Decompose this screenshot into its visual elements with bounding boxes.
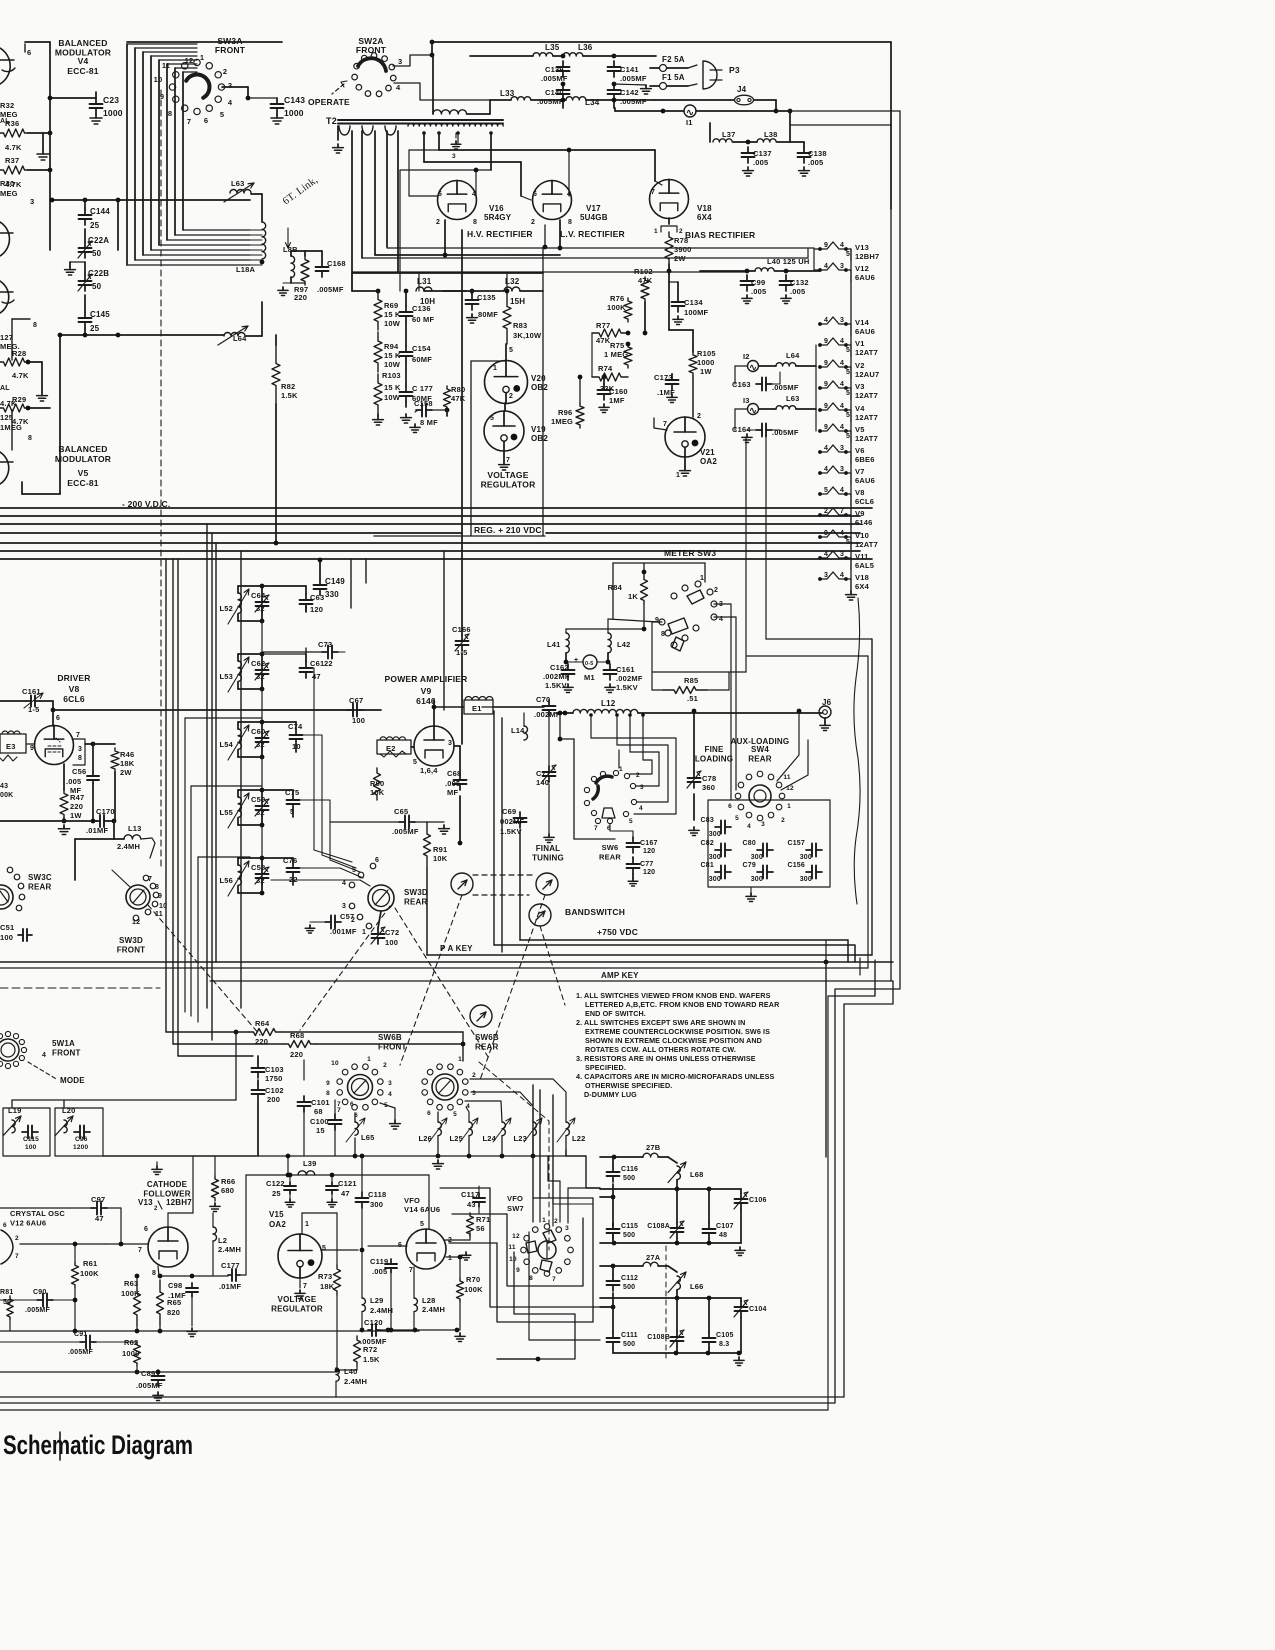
- svg-text:R37: R37: [5, 156, 19, 165]
- svg-text:60 MF: 60 MF: [412, 315, 434, 324]
- svg-text:9: 9: [824, 381, 828, 388]
- svg-text:5: 5: [490, 415, 494, 422]
- svg-text:2: 2: [472, 1072, 476, 1079]
- svg-text:2: 2: [679, 228, 683, 235]
- svg-text:6AU6: 6AU6: [855, 476, 875, 485]
- svg-text:10: 10: [154, 75, 163, 84]
- svg-text:4.7K: 4.7K: [12, 371, 29, 380]
- svg-text:140: 140: [536, 778, 549, 787]
- svg-text:I1: I1: [686, 118, 693, 127]
- svg-text:8: 8: [152, 1270, 156, 1277]
- svg-text:10W: 10W: [384, 393, 401, 402]
- svg-text:AMP KEY: AMP KEY: [601, 971, 639, 980]
- svg-text:.002MF: .002MF: [534, 710, 561, 719]
- svg-text:300: 300: [800, 854, 812, 861]
- svg-text:5: 5: [735, 815, 739, 822]
- svg-text:V5: V5: [78, 468, 89, 478]
- svg-text:.005MF: .005MF: [136, 1381, 163, 1390]
- svg-text:1: 1: [362, 929, 366, 936]
- svg-text:68: 68: [314, 1107, 323, 1116]
- svg-text:4: 4: [396, 83, 401, 92]
- svg-text:6X4: 6X4: [855, 582, 870, 591]
- svg-text:4: 4: [840, 487, 844, 494]
- svg-text:3: 3: [840, 263, 844, 270]
- svg-text:12BH7: 12BH7: [855, 252, 879, 261]
- svg-text:32: 32: [256, 672, 265, 681]
- svg-text:32: 32: [256, 740, 265, 749]
- svg-text:8: 8: [155, 884, 159, 891]
- svg-text:3: 3: [761, 821, 765, 828]
- svg-text:6AL5: 6AL5: [855, 561, 874, 570]
- svg-text:2: 2: [509, 393, 513, 400]
- svg-text:C121: C121: [338, 1179, 357, 1188]
- svg-text:V12 6AU6: V12 6AU6: [10, 1219, 46, 1228]
- svg-text:100: 100: [0, 933, 13, 942]
- svg-text:BANDSWITCH: BANDSWITCH: [565, 907, 625, 917]
- svg-text:18K: 18K: [120, 759, 135, 768]
- svg-text:5: 5: [846, 369, 850, 376]
- svg-text:C136: C136: [412, 304, 431, 313]
- svg-text:3900: 3900: [674, 245, 692, 254]
- svg-text:I2: I2: [743, 352, 750, 361]
- svg-text:3. RESISTORS ARE IN OHMS UNLES: 3. RESISTORS ARE IN OHMS UNLESS OTHERWIS…: [576, 1054, 756, 1063]
- svg-text:AL: AL: [0, 385, 10, 392]
- svg-text:END OF SWITCH.: END OF SWITCH.: [585, 1009, 646, 1018]
- svg-text:25: 25: [272, 1189, 281, 1198]
- svg-text:C132: C132: [790, 278, 809, 287]
- svg-text:5: 5: [322, 1245, 326, 1252]
- svg-text:7: 7: [303, 1283, 307, 1290]
- svg-text:6CL6: 6CL6: [63, 694, 85, 704]
- svg-text:4: 4: [840, 424, 844, 431]
- svg-text:7: 7: [840, 508, 844, 515]
- svg-text:SW7: SW7: [507, 1204, 524, 1213]
- svg-text:V15: V15: [269, 1210, 284, 1219]
- svg-text:C105: C105: [716, 1332, 734, 1339]
- svg-text:C106: C106: [749, 1197, 767, 1204]
- svg-text:15 K: 15 K: [384, 310, 401, 319]
- svg-text:C156: C156: [787, 862, 805, 869]
- svg-text:R80: R80: [451, 385, 465, 394]
- svg-text:4: 4: [42, 1052, 46, 1059]
- svg-text:FRONT: FRONT: [215, 45, 246, 55]
- svg-text:47: 47: [95, 1214, 104, 1223]
- svg-text:METER SW3: METER SW3: [664, 548, 716, 558]
- svg-text:1.5KV: 1.5KV: [616, 683, 638, 692]
- svg-text:C167: C167: [640, 840, 658, 847]
- svg-text:12AT7: 12AT7: [855, 540, 878, 549]
- svg-text:LOADING: LOADING: [695, 755, 733, 764]
- svg-text:BALANCED: BALANCED: [58, 38, 107, 48]
- svg-text:12BH7: 12BH7: [166, 1198, 192, 1207]
- svg-text:2.4MH: 2.4MH: [218, 1245, 241, 1254]
- svg-text:C79: C79: [743, 862, 756, 869]
- svg-text:10K: 10K: [370, 788, 385, 797]
- svg-text:5: 5: [824, 487, 828, 494]
- svg-text:5: 5: [846, 251, 850, 258]
- svg-text:C80: C80: [743, 840, 756, 847]
- svg-text:REGULATOR: REGULATOR: [271, 1305, 323, 1314]
- svg-text:15 K: 15 K: [384, 351, 401, 360]
- svg-text:300: 300: [370, 1200, 383, 1209]
- svg-text:C99: C99: [751, 278, 765, 287]
- svg-text:8: 8: [168, 109, 172, 118]
- svg-text:4: 4: [840, 360, 844, 367]
- svg-text:MEG.: MEG.: [0, 342, 20, 351]
- svg-text:120: 120: [310, 605, 323, 614]
- svg-text:1750: 1750: [265, 1074, 283, 1083]
- svg-text:I3: I3: [743, 396, 750, 405]
- svg-text:4: 4: [840, 572, 844, 579]
- svg-text:M1: M1: [584, 673, 595, 682]
- svg-text:L38: L38: [764, 130, 778, 139]
- svg-text:R76: R76: [610, 294, 624, 303]
- svg-text:OTHERWISE SPECIFIED.: OTHERWISE SPECIFIED.: [585, 1081, 672, 1090]
- svg-text:4: 4: [824, 317, 828, 324]
- svg-text:1.5KV: 1.5KV: [500, 827, 522, 836]
- svg-text:4: 4: [824, 466, 828, 473]
- svg-text:R65: R65: [167, 1298, 181, 1307]
- svg-text:1K: 1K: [628, 592, 638, 601]
- svg-text:R62: R62: [124, 1338, 138, 1347]
- svg-text:820: 820: [167, 1308, 180, 1317]
- svg-text:10K: 10K: [433, 854, 448, 863]
- svg-text:8: 8: [78, 755, 82, 762]
- svg-text:L24: L24: [482, 1134, 496, 1143]
- svg-text:L.V. RECTIFIER: L.V. RECTIFIER: [560, 229, 625, 239]
- svg-text:L22: L22: [572, 1134, 586, 1143]
- svg-text:8: 8: [28, 435, 32, 442]
- svg-text:9: 9: [655, 617, 659, 624]
- svg-text:5: 5: [453, 1111, 457, 1118]
- svg-text:C96: C96: [75, 1136, 88, 1143]
- svg-text:V13: V13: [138, 1198, 153, 1207]
- svg-text:C78: C78: [702, 774, 716, 783]
- svg-text:C108B: C108B: [647, 1334, 670, 1341]
- svg-text:SW6B: SW6B: [378, 1033, 402, 1042]
- svg-text:8: 8: [568, 219, 572, 226]
- svg-text:680: 680: [221, 1186, 234, 1195]
- svg-text:C161: C161: [616, 665, 635, 674]
- svg-text:12: 12: [512, 1233, 520, 1240]
- svg-text:V7: V7: [855, 467, 865, 476]
- svg-text:4: 4: [639, 805, 643, 812]
- svg-text:15 K: 15 K: [384, 383, 401, 392]
- svg-text:6146: 6146: [855, 518, 873, 527]
- svg-text:7: 7: [15, 1253, 19, 1260]
- svg-text:5: 5: [846, 347, 850, 354]
- svg-text:60MF: 60MF: [412, 355, 432, 364]
- svg-text:R85: R85: [684, 676, 698, 685]
- svg-text:7: 7: [337, 1101, 341, 1108]
- svg-text:V1: V1: [855, 339, 865, 348]
- svg-text:BIAS RECTIFIER: BIAS RECTIFIER: [685, 230, 755, 240]
- svg-text:11: 11: [162, 61, 170, 70]
- svg-text:FRONT: FRONT: [52, 1049, 81, 1058]
- svg-text:27A: 27A: [646, 1253, 661, 1262]
- svg-text:1: 1: [700, 575, 704, 582]
- svg-text:9: 9: [824, 360, 828, 367]
- svg-text:OA2: OA2: [269, 1220, 286, 1229]
- svg-text:C111: C111: [621, 1332, 638, 1339]
- svg-text:1: 1: [200, 53, 204, 62]
- svg-text:L63: L63: [231, 179, 245, 188]
- svg-text:C115: C115: [23, 1136, 39, 1143]
- svg-text:R70: R70: [466, 1275, 480, 1284]
- svg-text:12AT7: 12AT7: [855, 434, 878, 443]
- svg-text:4. CAPACITORS ARE IN MICRO-MIC: 4. CAPACITORS ARE IN MICRO-MICROFARADS U…: [576, 1072, 775, 1081]
- svg-text:L33: L33: [500, 89, 515, 98]
- svg-text:C61: C61: [310, 659, 324, 668]
- svg-text:REAR: REAR: [28, 883, 51, 892]
- svg-text:.002MF: .002MF: [616, 674, 643, 683]
- svg-text:2.4MH: 2.4MH: [422, 1305, 445, 1314]
- svg-text:.005MF: .005MF: [620, 74, 647, 83]
- svg-text:C168: C168: [327, 259, 346, 268]
- svg-text:R72: R72: [363, 1345, 377, 1354]
- svg-text:C154: C154: [412, 344, 431, 353]
- svg-text:C112: C112: [621, 1275, 638, 1282]
- svg-text:3: 3: [228, 81, 232, 90]
- svg-text:C70: C70: [536, 695, 550, 704]
- svg-text:V19: V19: [531, 425, 546, 434]
- svg-text:C134: C134: [684, 298, 703, 307]
- svg-text:REAR: REAR: [599, 853, 621, 862]
- svg-text:330: 330: [325, 590, 339, 599]
- svg-text:220: 220: [290, 1050, 303, 1059]
- svg-text:7: 7: [651, 189, 655, 196]
- svg-text:R46: R46: [120, 750, 134, 759]
- svg-text:50: 50: [92, 282, 102, 291]
- svg-text:C162: C162: [550, 663, 569, 672]
- svg-text:.005MF: .005MF: [772, 428, 799, 437]
- svg-text:32: 32: [256, 808, 265, 817]
- svg-text:300: 300: [709, 854, 721, 861]
- svg-text:2: 2: [697, 413, 701, 420]
- svg-text:1: 1: [619, 766, 623, 773]
- svg-text:L39: L39: [303, 1159, 317, 1168]
- svg-text:9: 9: [516, 1267, 520, 1274]
- svg-text:5R4GY: 5R4GY: [484, 213, 512, 222]
- svg-text:00K: 00K: [0, 792, 13, 799]
- svg-text:C71: C71: [536, 769, 550, 778]
- svg-text:C166: C166: [452, 625, 471, 634]
- svg-text:360: 360: [702, 783, 715, 792]
- svg-text:C81: C81: [701, 862, 714, 869]
- svg-text:MEG: MEG: [0, 189, 18, 198]
- svg-text:1 MEG: 1 MEG: [604, 350, 628, 359]
- svg-text:50: 50: [92, 249, 102, 258]
- svg-text:C139: C139: [545, 65, 564, 74]
- svg-text:C135: C135: [477, 293, 496, 302]
- svg-text:MODULATOR: MODULATOR: [55, 454, 111, 464]
- svg-text:V2: V2: [855, 361, 865, 370]
- svg-text:V18: V18: [697, 204, 712, 213]
- svg-text:V21: V21: [700, 448, 715, 457]
- svg-text:.005: .005: [66, 777, 81, 786]
- svg-text:1200: 1200: [73, 1144, 88, 1151]
- svg-text:2. ALL SWITCHES EXCEPT SW6 ARE: 2. ALL SWITCHES EXCEPT SW6 ARE SHOWN IN: [576, 1018, 745, 1027]
- svg-text:L25: L25: [449, 1134, 463, 1143]
- svg-text:L55: L55: [219, 808, 233, 817]
- svg-text:POWER AMPLIFIER: POWER AMPLIFIER: [385, 674, 468, 684]
- svg-text:6: 6: [350, 1101, 354, 1108]
- svg-text:C173: C173: [654, 373, 673, 382]
- svg-text:CATHODE: CATHODE: [147, 1180, 188, 1189]
- svg-text:9: 9: [824, 424, 828, 431]
- svg-text:C97: C97: [91, 1195, 105, 1204]
- svg-text:56: 56: [476, 1224, 485, 1233]
- svg-text:5: 5: [420, 1221, 424, 1228]
- svg-text:1: 1: [676, 472, 680, 479]
- svg-text:4: 4: [824, 263, 828, 270]
- svg-text:C144: C144: [90, 207, 110, 216]
- svg-text:C 177: C 177: [412, 384, 433, 393]
- svg-text:15H: 15H: [510, 297, 525, 306]
- svg-text:1MEG: 1MEG: [551, 417, 573, 426]
- svg-text:7: 7: [594, 825, 598, 832]
- svg-text:6BE6: 6BE6: [855, 455, 875, 464]
- svg-text:SHOWN IN EXTREME CLOCKWISE POS: SHOWN IN EXTREME CLOCKWISE POSITION AND: [585, 1036, 762, 1045]
- svg-text:SW4: SW4: [751, 745, 769, 754]
- svg-text:100: 100: [352, 716, 365, 725]
- svg-text:L65: L65: [361, 1133, 375, 1142]
- svg-text:REAR: REAR: [404, 898, 427, 907]
- svg-text:15: 15: [316, 1126, 325, 1135]
- svg-text:SW6B: SW6B: [475, 1033, 499, 1042]
- svg-text:R73: R73: [318, 1272, 332, 1281]
- svg-text:R96: R96: [558, 408, 572, 417]
- svg-text:10: 10: [331, 1060, 339, 1067]
- svg-text:DRIVER: DRIVER: [57, 673, 90, 683]
- svg-text:.005MF: .005MF: [541, 74, 568, 83]
- svg-text:32: 32: [256, 604, 265, 613]
- svg-text:25: 25: [90, 324, 100, 333]
- svg-text:C170: C170: [96, 807, 115, 816]
- svg-text:V8: V8: [69, 684, 80, 694]
- svg-text:6: 6: [427, 1110, 431, 1117]
- svg-text:9: 9: [326, 1080, 330, 1087]
- svg-text:ROTATES CCW. ALL OTHERS ROTATE: ROTATES CCW. ALL OTHERS ROTATE CW.: [585, 1045, 736, 1054]
- svg-text:T2: T2: [326, 116, 337, 126]
- svg-text:L63: L63: [786, 394, 800, 403]
- svg-text:C77: C77: [640, 861, 653, 868]
- svg-text:4: 4: [747, 823, 751, 830]
- svg-text:R71: R71: [476, 1215, 490, 1224]
- svg-text:32: 32: [256, 876, 265, 885]
- svg-text:5: 5: [846, 390, 850, 397]
- svg-text:1.5K: 1.5K: [363, 1355, 380, 1364]
- svg-text:.005: .005: [372, 1267, 387, 1276]
- svg-text:3: 3: [472, 1090, 476, 1097]
- svg-text:3: 3: [448, 740, 452, 747]
- svg-text:3: 3: [30, 197, 34, 206]
- svg-text:C142: C142: [620, 88, 639, 97]
- svg-text:C56: C56: [72, 767, 86, 776]
- svg-text:12AT7: 12AT7: [855, 391, 878, 400]
- svg-text:4: 4: [342, 880, 346, 887]
- svg-text:4: 4: [824, 551, 828, 558]
- svg-text:R66: R66: [221, 1177, 235, 1186]
- svg-text:4: 4: [388, 1091, 392, 1098]
- svg-text:220: 220: [70, 802, 83, 811]
- svg-text:L66: L66: [690, 1282, 704, 1291]
- svg-text:1,6,4: 1,6,4: [420, 766, 438, 775]
- svg-text:7: 7: [552, 1276, 556, 1283]
- svg-text:C137: C137: [753, 149, 772, 158]
- svg-text:5: 5: [846, 433, 850, 440]
- svg-text:3: 3: [78, 746, 82, 753]
- svg-text:L18A: L18A: [236, 265, 256, 274]
- svg-text:C103: C103: [265, 1065, 284, 1074]
- svg-text:7: 7: [337, 1107, 341, 1114]
- svg-text:EXTREME COUNTERCLOCKWISE POSIT: EXTREME COUNTERCLOCKWISE POSITION. SW6 I…: [585, 1027, 770, 1036]
- svg-text:500: 500: [623, 1232, 635, 1239]
- svg-text:300: 300: [800, 876, 812, 883]
- svg-text:VOLTAGE: VOLTAGE: [278, 1295, 317, 1304]
- svg-text:REGULATOR: REGULATOR: [481, 480, 536, 490]
- svg-text:C23: C23: [103, 95, 119, 105]
- svg-text:R82: R82: [281, 382, 295, 391]
- svg-text:R78: R78: [674, 236, 688, 245]
- svg-text:6: 6: [27, 48, 31, 57]
- svg-text:V13: V13: [855, 243, 869, 252]
- svg-text:2: 2: [554, 1218, 558, 1225]
- svg-text:L2: L2: [218, 1236, 227, 1245]
- svg-text:100K: 100K: [607, 303, 626, 312]
- svg-text:C102: C102: [265, 1086, 284, 1095]
- svg-text:7: 7: [663, 421, 667, 428]
- svg-text:.005MF: .005MF: [392, 827, 419, 836]
- svg-text:R61: R61: [83, 1259, 97, 1268]
- svg-text:47: 47: [341, 1189, 350, 1198]
- svg-text:6: 6: [56, 715, 60, 722]
- svg-text:5: 5: [509, 347, 513, 354]
- svg-text:5W1A: 5W1A: [52, 1039, 75, 1048]
- svg-text:6: 6: [533, 191, 537, 198]
- svg-text:9: 9: [824, 338, 828, 345]
- svg-text:L52: L52: [219, 604, 233, 613]
- svg-text:L23: L23: [513, 1134, 527, 1143]
- svg-text:C143: C143: [284, 95, 305, 105]
- svg-text:L14: L14: [511, 726, 525, 735]
- svg-text:C119: C119: [370, 1257, 388, 1266]
- svg-text:8: 8: [33, 322, 37, 329]
- svg-text:2: 2: [781, 817, 785, 824]
- svg-text:P3: P3: [729, 65, 740, 75]
- svg-text:V16: V16: [489, 204, 504, 213]
- svg-text:18K: 18K: [320, 1282, 335, 1291]
- svg-text:3: 3: [388, 1080, 392, 1087]
- svg-text:.005MF: .005MF: [537, 97, 564, 106]
- svg-text:L41: L41: [547, 640, 561, 649]
- svg-text:FINE: FINE: [704, 745, 723, 754]
- svg-text:7: 7: [506, 457, 510, 464]
- svg-text:R47: R47: [70, 793, 84, 802]
- svg-text:C108A: C108A: [647, 1223, 670, 1230]
- svg-text:CRYSTAL OSC: CRYSTAL OSC: [10, 1209, 65, 1218]
- svg-text:R77: R77: [596, 321, 610, 330]
- svg-text:C60: C60: [251, 727, 265, 736]
- svg-text:47K: 47K: [596, 336, 611, 345]
- svg-text:FINAL: FINAL: [536, 844, 561, 853]
- svg-text:V17: V17: [586, 204, 601, 213]
- svg-text:C62: C62: [251, 659, 265, 668]
- svg-text:100K: 100K: [464, 1285, 483, 1294]
- svg-text:1: 1: [367, 1056, 371, 1063]
- svg-text:3: 3: [840, 445, 844, 452]
- svg-text:C117: C117: [461, 1190, 479, 1199]
